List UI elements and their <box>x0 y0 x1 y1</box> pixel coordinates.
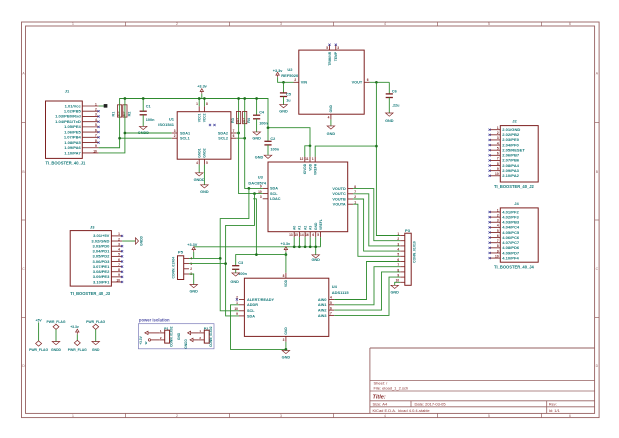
svg-text:5: 5 <box>118 253 120 257</box>
svg-text:GND: GND <box>279 109 288 113</box>
wire SDA tap down <box>220 188 249 310</box>
wire SDA2 to R3 <box>236 132 238 134</box>
svg-text:.22u: .22u <box>392 104 400 108</box>
wire P2 pin1 <box>191 332 199 334</box>
svg-text:+5V: +5V <box>36 318 43 322</box>
wire P3 pin10 gnd <box>395 282 401 285</box>
svg-text:5: 5 <box>95 123 97 127</box>
wire C6 bottom <box>388 98 390 114</box>
svg-text:C3: C3 <box>238 261 243 265</box>
no-connect U2 TEMP <box>335 44 337 46</box>
svg-text:4: 4 <box>384 22 386 26</box>
junction C4 rail <box>255 97 258 100</box>
wire +3.3v P5 stem <box>193 252 195 259</box>
wire R4 top <box>244 99 246 124</box>
svg-text:2: 2 <box>397 237 399 241</box>
svg-text:P3: P3 <box>405 228 411 233</box>
svg-text:9: 9 <box>118 273 120 277</box>
wire C6 top <box>388 82 390 94</box>
svg-text:10: 10 <box>116 278 120 282</box>
svg-text:6: 6 <box>569 22 571 26</box>
svg-text:GND: GND <box>390 290 399 294</box>
svg-text:REF5020: REF5020 <box>281 73 299 78</box>
svg-text:1: 1 <box>118 232 120 236</box>
wire P1 pin1 <box>148 332 159 334</box>
ground GND below U4 <box>282 350 291 359</box>
svg-text:J3: J3 <box>90 225 95 230</box>
junction VCC1 <box>198 97 201 100</box>
svg-text:8: 8 <box>497 244 499 248</box>
wire VREFL drop <box>320 237 322 247</box>
ground GNDD below C1 <box>138 126 149 135</box>
svg-text:CONN_01X02: CONN_01X02 <box>209 326 213 347</box>
svg-text:9: 9 <box>260 185 262 189</box>
connector J3 TI_BOOSTER_40_J3 <box>70 225 123 296</box>
wire C1 bottom <box>142 115 144 127</box>
wire C5 top <box>283 82 285 93</box>
wire SCL2 to R4 <box>236 137 244 139</box>
svg-text:4: 4 <box>384 414 386 418</box>
svg-text:2: 2 <box>190 267 192 271</box>
svg-text:U3: U3 <box>258 174 264 179</box>
wire SDA1 net <box>99 117 125 153</box>
svg-text:1: 1 <box>72 414 74 418</box>
resistor R3 <box>231 111 241 123</box>
IC U3 DAC8574 <box>248 157 356 238</box>
svg-text:3: 3 <box>337 46 339 50</box>
wire AIN3 to P3 <box>334 277 400 315</box>
svg-text:7: 7 <box>497 157 499 161</box>
svg-text:ISO1541: ISO1541 <box>158 122 175 127</box>
svg-text:9: 9 <box>497 167 499 171</box>
svg-text:VOUTB: VOUTB <box>332 197 346 201</box>
wire VOUTD to P3 <box>353 189 400 241</box>
svg-text:GND: GND <box>177 332 181 340</box>
svg-text:C2: C2 <box>270 137 275 141</box>
svg-text:3: 3 <box>497 219 499 223</box>
junction VREF <box>375 81 378 84</box>
svg-text:4: 4 <box>497 224 499 228</box>
junction LDAC line <box>255 253 258 256</box>
junction C2 tap <box>267 126 270 129</box>
wire U2 GND <box>330 120 332 126</box>
svg-text:3: 3 <box>95 113 97 117</box>
svg-text:5: 5 <box>326 46 328 50</box>
svg-text:A3: A3 <box>309 226 313 230</box>
svg-text:3: 3 <box>260 195 262 199</box>
svg-text:4k7: 4k7 <box>122 111 126 116</box>
svg-text:A2: A2 <box>303 226 307 230</box>
ground GND below U2 <box>327 126 336 136</box>
svg-text:+3.3v: +3.3v <box>273 69 283 73</box>
op-amp U1 ISO1541 I2C isolator <box>158 102 236 165</box>
svg-text:A1: A1 <box>298 226 302 230</box>
svg-text:1.10/PA7: 1.10/PA7 <box>64 150 81 155</box>
connector J4 TI_BOOSTER_40_J4 <box>489 201 539 269</box>
svg-text:J1: J1 <box>65 89 70 94</box>
svg-text:100n: 100n <box>270 148 279 152</box>
svg-text:SDA2: SDA2 <box>218 131 228 135</box>
wire LDAC down <box>253 199 256 255</box>
ground GND below P3 <box>390 285 399 294</box>
svg-text:A0: A0 <box>293 226 297 230</box>
svg-text:VIN: VIN <box>301 81 308 85</box>
ground GND below C3 <box>230 273 239 284</box>
wire R2 top <box>124 99 126 118</box>
svg-text:2.10/PA2: 2.10/PA2 <box>502 173 519 178</box>
svg-text:1: 1 <box>72 22 74 26</box>
wire C4 bottom <box>256 119 258 132</box>
svg-text:4: 4 <box>397 248 399 252</box>
svg-text:VCC2: VCC2 <box>203 113 207 122</box>
svg-text:2: 2 <box>497 131 499 135</box>
node flag on J1 pin1 <box>104 104 107 107</box>
svg-text:GNDD: GNDD <box>184 339 188 349</box>
junction VCC2 <box>203 97 206 100</box>
ground GNDD at J3 <box>136 235 144 246</box>
wire +3.3v rail <box>120 99 310 146</box>
svg-text:9: 9 <box>95 144 97 148</box>
wire VCC2 drop <box>203 99 205 107</box>
svg-text:ADDR: ADDR <box>247 303 258 307</box>
wire P1 pin2 <box>151 339 160 341</box>
svg-text:VREFH: VREFH <box>314 163 318 175</box>
junction VREFH tap <box>375 145 378 148</box>
svg-text:2: 2 <box>294 78 296 82</box>
svg-text:SCL2: SCL2 <box>218 137 228 141</box>
svg-text:4k7: 4k7 <box>117 111 121 116</box>
IC U4 ADS1115 ADC <box>234 273 349 342</box>
wire +3.3v rail bottom <box>194 246 321 248</box>
svg-text:3: 3 <box>280 22 282 26</box>
svg-text:TI_BOOSTER_40_J1: TI_BOOSTER_40_J1 <box>46 160 87 165</box>
wire GND2 <box>203 165 205 185</box>
svg-text:6: 6 <box>497 152 499 156</box>
svg-text:C1: C1 <box>146 105 151 109</box>
svg-text:SCL: SCL <box>247 309 255 313</box>
svg-text:2: 2 <box>174 134 176 138</box>
svg-text:5: 5 <box>206 161 208 165</box>
svg-text:GND: GND <box>230 280 239 284</box>
svg-text:TI_BOOSTER_40_J3: TI_BOOSTER_40_J3 <box>70 291 111 296</box>
svg-text:2: 2 <box>95 108 97 112</box>
ground GND below C4 <box>252 132 261 141</box>
svg-text:VREFL: VREFL <box>319 219 323 230</box>
svg-text:1: 1 <box>397 232 399 236</box>
svg-text:11: 11 <box>305 157 309 161</box>
power flag GNDD <box>46 320 65 352</box>
junction SCL1 R1 <box>118 137 121 140</box>
power +3.3V at P1 <box>139 331 148 345</box>
wire VREFH line <box>315 146 376 157</box>
junction rail 305.1 <box>304 245 307 248</box>
svg-text:TI_BOOSTER_40_J4: TI_BOOSTER_40_J4 <box>494 264 535 269</box>
svg-text:GND: GND <box>385 119 394 123</box>
svg-text:100n: 100n <box>146 118 155 122</box>
IC U2 REF5020 voltage reference <box>281 45 369 120</box>
svg-text:1: 1 <box>497 208 499 212</box>
svg-text:3: 3 <box>497 136 499 140</box>
svg-text:2: 2 <box>118 237 120 241</box>
svg-text:7: 7 <box>497 239 499 243</box>
svg-text:TI_BOOSTER_40_J2: TI_BOOSTER_40_J2 <box>494 184 535 189</box>
svg-text:KiCad E.D.A. kicad 4.0.4-stab: KiCad E.D.A. kicad 4.0.4-stable <box>373 408 431 413</box>
svg-text:6: 6 <box>367 78 369 82</box>
wire R3 top <box>238 99 240 124</box>
wire VOUTB to P3 <box>353 199 400 251</box>
junction SCL tap <box>253 192 256 195</box>
ground GND below U1 <box>200 185 209 194</box>
wire R4 down to U3 SDA <box>245 124 263 189</box>
svg-text:GND: GND <box>314 222 318 230</box>
svg-text:GND: GND <box>252 137 261 141</box>
svg-text:GND: GND <box>255 156 264 160</box>
connector P3 CONN_01X10 <box>396 228 417 285</box>
svg-text:Size: A4: Size: A4 <box>373 402 388 407</box>
wire AIN1 to P3 <box>334 267 400 305</box>
capacitor C1 <box>140 105 156 122</box>
svg-text:3: 3 <box>118 242 120 246</box>
junction rail 294.2 <box>293 245 296 248</box>
svg-text:CONN_01X10: CONN_01X10 <box>412 241 416 263</box>
svg-text:5: 5 <box>488 22 490 26</box>
svg-text:P5: P5 <box>178 249 184 254</box>
wire P5 pin2 <box>189 263 226 265</box>
svg-text:1u: 1u <box>286 98 291 102</box>
junction R4 rail <box>243 97 246 100</box>
svg-text:4: 4 <box>118 248 120 252</box>
svg-text:AIN2: AIN2 <box>318 309 327 313</box>
wire C1 top <box>142 99 144 112</box>
svg-text:2: 2 <box>176 414 178 418</box>
svg-text:100n: 100n <box>238 272 247 276</box>
ground GNDD at P2 <box>184 338 193 348</box>
wire C5 bottom <box>283 97 285 105</box>
svg-text:10: 10 <box>495 172 499 176</box>
svg-text:J4: J4 <box>514 201 519 206</box>
wire VOUTC to P3 <box>353 194 400 246</box>
svg-text:4: 4 <box>196 161 198 165</box>
svg-text:+3.3v: +3.3v <box>70 325 79 329</box>
svg-text:GND1: GND1 <box>197 148 201 157</box>
svg-text:10: 10 <box>258 190 262 194</box>
svg-text:GND: GND <box>189 290 198 294</box>
svg-text:R1: R1 <box>112 112 116 117</box>
power +3.3v at P5 <box>187 243 197 252</box>
svg-text:AIN1: AIN1 <box>318 303 327 307</box>
junction R3 rail <box>237 97 240 100</box>
svg-text:SDA: SDA <box>247 314 255 318</box>
svg-text:6: 6 <box>312 233 314 237</box>
svg-text:8: 8 <box>497 162 499 166</box>
wire ADDR to GND <box>231 305 286 350</box>
junction SDA tap <box>248 187 251 190</box>
wire VOUTA to P3 <box>353 204 400 256</box>
svg-text:GND: GND <box>311 258 320 262</box>
ground GND below C6 <box>385 113 394 123</box>
svg-text:100n: 100n <box>259 122 268 126</box>
svg-text:+3.3V: +3.3V <box>139 335 143 344</box>
svg-text:9: 9 <box>497 249 499 253</box>
svg-text:3.10/PF1: 3.10/PF1 <box>93 279 110 284</box>
svg-text:7: 7 <box>233 129 235 133</box>
wire U4 gnd stub <box>285 349 287 350</box>
svg-text:SCL: SCL <box>270 192 278 196</box>
wire AIN0 to P3 <box>334 262 400 300</box>
svg-text:8: 8 <box>283 274 285 278</box>
svg-text:CONN_01X02: CONN_01X02 <box>170 326 174 347</box>
wire A pin drop 305.1 <box>304 237 306 247</box>
wire P5 pin4 gnd <box>189 274 194 285</box>
svg-text:1: 1 <box>95 102 97 106</box>
junction vdd line <box>285 253 288 256</box>
svg-text:VDD: VDD <box>284 279 288 287</box>
wire GND1 <box>198 165 200 173</box>
power +3.3v at U2 <box>273 69 283 78</box>
ground GND below C5 <box>279 105 288 114</box>
svg-text:6: 6 <box>497 234 499 238</box>
svg-text:6: 6 <box>118 258 120 262</box>
power flag GND <box>86 320 105 352</box>
junction U3 VDD <box>309 144 312 147</box>
connector J1 TI_BOOSTER_40_J1 <box>46 89 100 166</box>
junction P5 SCL <box>224 262 227 265</box>
wire J3 pin2 gndd <box>122 240 135 242</box>
svg-text:5: 5 <box>497 229 499 233</box>
svg-text:4: 4 <box>497 141 499 145</box>
svg-text:GND: GND <box>327 132 336 136</box>
svg-text:4k7: 4k7 <box>242 118 246 123</box>
no-connect U1 internal pins <box>209 124 216 126</box>
svg-text:13: 13 <box>289 233 293 237</box>
svg-text:Rev:: Rev: <box>549 402 557 407</box>
wire SCL1 net <box>99 117 120 148</box>
svg-text:U4: U4 <box>332 284 338 289</box>
svg-text:VOUT: VOUT <box>352 81 363 85</box>
svg-text:LDAC: LDAC <box>270 197 281 201</box>
svg-text:4k7: 4k7 <box>236 118 240 123</box>
svg-text:Id: 1/1: Id: 1/1 <box>549 408 561 413</box>
wire +3.3v to VIN <box>278 77 294 82</box>
svg-text:4: 4 <box>328 116 330 120</box>
wire C2 top <box>267 128 269 142</box>
wire J1 pin1 to flag <box>99 105 104 107</box>
svg-text:6: 6 <box>95 128 97 132</box>
svg-text:9: 9 <box>236 312 238 316</box>
svg-text:ALERT/READY: ALERT/READY <box>247 298 274 302</box>
wire P5 pin1 <box>189 257 220 259</box>
svg-text:GNDD: GNDD <box>194 178 205 182</box>
svg-text:U1: U1 <box>169 117 175 122</box>
ground GND at P2 <box>177 331 191 340</box>
svg-text:+3.3V: +3.3V <box>187 243 197 247</box>
power +3.3v above U1 <box>197 84 207 93</box>
svg-text:J2: J2 <box>512 119 517 124</box>
svg-text:10: 10 <box>93 149 97 153</box>
svg-text:GNDD: GNDD <box>139 235 143 246</box>
svg-text:PWR_FLAG: PWR_FLAG <box>46 320 65 324</box>
svg-text:1: 1 <box>312 157 314 161</box>
junction rail 299.4 <box>298 245 301 248</box>
svg-text:GND: GND <box>282 356 291 360</box>
svg-text:ADS1115: ADS1115 <box>332 290 350 295</box>
junction C5 <box>282 81 285 84</box>
power +3.3v mid <box>280 242 290 252</box>
svg-text:GND: GND <box>92 348 100 352</box>
svg-text:4: 4 <box>330 296 332 300</box>
capacitor C5 <box>280 93 291 103</box>
wire R3 down to U3 SCL <box>239 124 263 194</box>
wire SCL1 to U1 <box>120 137 172 139</box>
svg-text:15: 15 <box>294 233 298 237</box>
power flag +3.3v <box>68 325 87 352</box>
wire A pin drop 299.4 <box>298 237 300 247</box>
no-connect U2 TRIM <box>328 44 330 46</box>
svg-text:1: 1 <box>497 126 499 130</box>
svg-text:5: 5 <box>330 301 332 305</box>
svg-text:GNDD: GNDD <box>51 348 62 352</box>
svg-text:2: 2 <box>176 22 178 26</box>
svg-text:PWR_FLAG: PWR_FLAG <box>86 320 105 324</box>
svg-text:5: 5 <box>488 414 490 418</box>
svg-text:1: 1 <box>196 102 198 106</box>
wire C4 top <box>256 99 258 116</box>
ground GNDD below U1 <box>194 173 205 182</box>
junction C1 rail <box>142 97 145 100</box>
wire +3.3v stem U1 <box>201 94 203 99</box>
svg-text:+3.3v: +3.3v <box>197 84 207 88</box>
svg-text:8: 8 <box>95 139 97 143</box>
svg-text:GND: GND <box>284 327 288 335</box>
wire +3.3v to VDD IOVDD <box>305 146 310 157</box>
node open circle P1 pin2 <box>144 339 151 345</box>
capacitor C6 <box>386 89 400 107</box>
wire U3 GND drop <box>315 237 317 255</box>
svg-text:DAC8574: DAC8574 <box>248 181 266 186</box>
svg-text:IOVDD: IOVDD <box>303 163 307 174</box>
svg-text:16: 16 <box>305 233 309 237</box>
svg-text:TEMP: TEMP <box>334 51 338 61</box>
svg-text:Date: 2017-03-05: Date: 2017-03-05 <box>415 402 447 407</box>
junction rail 310.2 <box>309 245 312 248</box>
svg-text:GND: GND <box>200 190 209 194</box>
svg-text:SCL1: SCL1 <box>180 137 190 141</box>
resistor R4 <box>242 111 251 123</box>
svg-text:3: 3 <box>397 242 399 246</box>
svg-text:File: eload_1_2.sch: File: eload_1_2.sch <box>374 386 409 391</box>
svg-text:power isolation: power isolation <box>139 317 170 322</box>
svg-text:AIN3: AIN3 <box>318 314 327 318</box>
wire A pin drop 294.2 <box>293 237 295 247</box>
svg-text:W: W <box>144 341 148 344</box>
svg-text:7: 7 <box>95 134 97 138</box>
svg-text:CONN_01X04: CONN_01X04 <box>172 257 176 279</box>
svg-text:R3: R3 <box>231 118 235 123</box>
wire U4 GND <box>285 342 287 350</box>
wire U2 VOUT to C6 <box>370 81 390 83</box>
svg-text:6: 6 <box>330 306 332 310</box>
capacitor C3 <box>232 261 248 276</box>
svg-text:Title:: Title: <box>373 394 386 400</box>
svg-text:5: 5 <box>317 233 319 237</box>
svg-text:+3.3v: +3.3v <box>280 242 290 246</box>
ground GND below P5 <box>189 285 198 294</box>
wire A pin drop 310.2 <box>309 237 311 247</box>
svg-text:8: 8 <box>206 102 208 106</box>
wire SDA1 to U1 <box>125 132 172 134</box>
wire C2 bottom <box>267 145 269 155</box>
svg-text:AIN0: AIN0 <box>318 298 327 302</box>
